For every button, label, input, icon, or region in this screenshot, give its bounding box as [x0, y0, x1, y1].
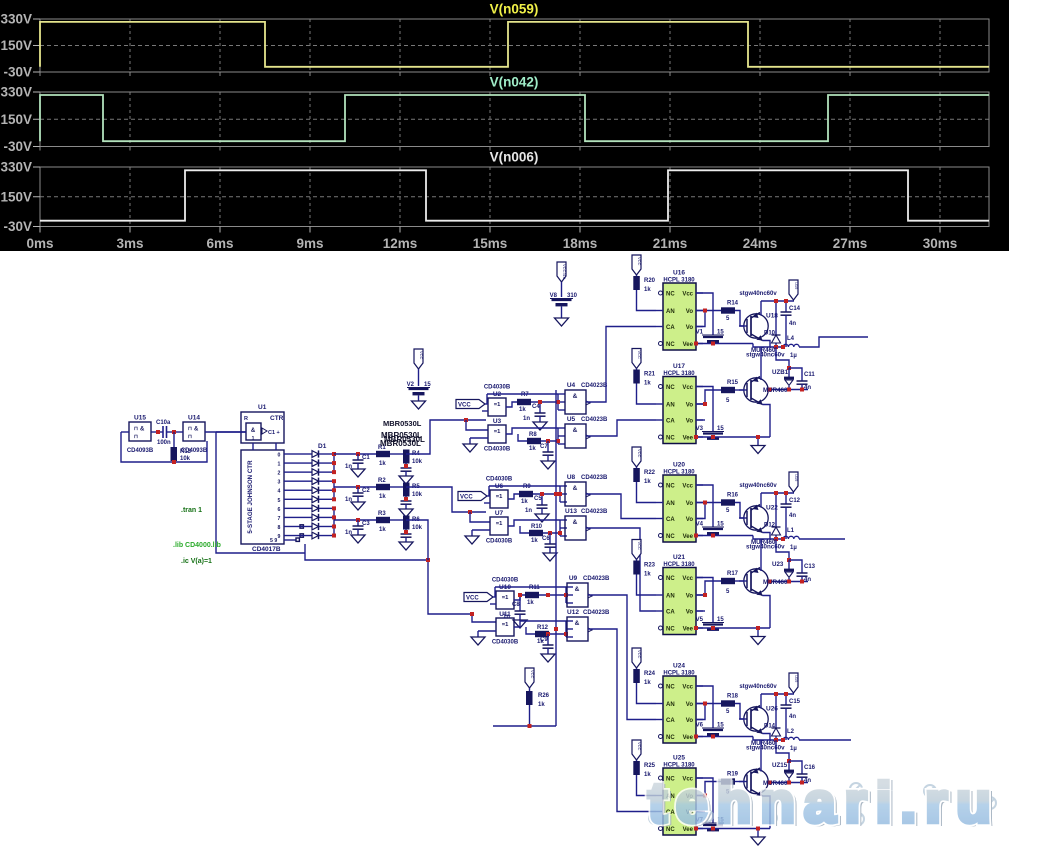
- svg-text:R3: R3: [378, 511, 386, 517]
- svg-text:CD4030B: CD4030B: [492, 640, 519, 646]
- svg-text:1k: 1k: [531, 538, 538, 544]
- svg-text:6ms: 6ms: [206, 236, 233, 251]
- svg-text:VCC: VCC: [637, 449, 642, 458]
- svg-text:Vo: Vo: [686, 325, 694, 331]
- svg-text:Vo: Vo: [686, 610, 694, 616]
- svg-text:U20: U20: [673, 462, 685, 469]
- svg-text:1n: 1n: [345, 530, 352, 536]
- svg-text:R26: R26: [538, 693, 550, 699]
- svg-text:R21: R21: [644, 372, 656, 378]
- svg-text:&: &: [573, 485, 578, 492]
- svg-text:C13: C13: [804, 564, 816, 570]
- svg-text:CD4023B: CD4023B: [581, 509, 608, 515]
- svg-text:L4: L4: [787, 336, 795, 342]
- svg-text:NC: NC: [666, 627, 675, 633]
- svg-text:9: 9: [278, 534, 281, 540]
- svg-text:4: 4: [278, 489, 281, 495]
- svg-text:C4: C4: [532, 404, 540, 410]
- svg-text:330V: 330V: [0, 160, 32, 175]
- svg-text:Vcc: Vcc: [682, 484, 693, 490]
- svg-text:=1: =1: [494, 402, 501, 408]
- svg-text:1µ: 1µ: [790, 545, 797, 551]
- svg-text:Vee: Vee: [683, 534, 694, 540]
- svg-text:=1: =1: [502, 595, 509, 601]
- svg-text:Vcc: Vcc: [682, 385, 693, 391]
- svg-text:NC: NC: [666, 292, 675, 298]
- svg-text:VCC: VCC: [458, 403, 471, 409]
- svg-text:1n: 1n: [523, 416, 530, 422]
- svg-text:150V: 150V: [0, 189, 32, 204]
- svg-text:0ms: 0ms: [26, 236, 53, 251]
- svg-text:Vo: Vo: [686, 309, 694, 315]
- svg-text:1n: 1n: [525, 508, 532, 514]
- svg-text:1k: 1k: [529, 446, 536, 452]
- svg-text:CD4030B: CD4030B: [484, 447, 511, 453]
- svg-text:AN: AN: [666, 702, 675, 708]
- svg-text:&: &: [573, 427, 578, 434]
- svg-text:R24: R24: [644, 671, 656, 677]
- svg-text:U9: U9: [569, 575, 578, 582]
- svg-text:MBR0530L: MBR0530L: [383, 419, 422, 428]
- svg-text:5: 5: [726, 398, 730, 404]
- svg-text:U16: U16: [673, 270, 685, 277]
- svg-text:CD4023B: CD4023B: [581, 383, 608, 389]
- svg-text:5: 5: [726, 508, 730, 514]
- svg-text:&: &: [573, 393, 578, 400]
- svg-text:4n: 4n: [789, 714, 796, 720]
- svg-text:330V: 330V: [0, 85, 32, 100]
- svg-text:Vee: Vee: [683, 342, 694, 348]
- svg-text:Vo: Vo: [686, 702, 694, 708]
- svg-text:⊓: ⊓: [188, 426, 192, 432]
- svg-text:1k: 1k: [379, 494, 386, 500]
- svg-text:R17: R17: [727, 571, 739, 577]
- svg-text:L2: L2: [787, 729, 795, 735]
- svg-text:=1: =1: [494, 429, 501, 435]
- svg-text:C15: C15: [789, 699, 801, 705]
- svg-text:R23: R23: [644, 563, 656, 569]
- svg-text:U7: U7: [495, 510, 504, 517]
- svg-text:27ms: 27ms: [833, 236, 868, 251]
- svg-text:C12: C12: [789, 498, 801, 504]
- svg-text:2: 2: [278, 471, 281, 477]
- svg-text:NC: NC: [666, 534, 675, 540]
- svg-text:12ms: 12ms: [383, 236, 418, 251]
- svg-text:Vcc: Vcc: [682, 685, 693, 691]
- svg-text:C10a: C10a: [156, 420, 171, 426]
- svg-text:1k: 1k: [644, 287, 651, 293]
- svg-text:150V: 150V: [0, 112, 32, 127]
- svg-text:HCPL 3180: HCPL 3180: [663, 763, 695, 769]
- svg-text:NC: NC: [666, 484, 675, 490]
- svg-text:5: 5: [726, 316, 730, 322]
- svg-text:CA: CA: [666, 325, 675, 331]
- svg-text:1k: 1k: [527, 600, 534, 606]
- svg-text:C6: C6: [542, 536, 550, 542]
- svg-text:HCPL 3180: HCPL 3180: [663, 278, 695, 284]
- svg-text:Vo: Vo: [686, 594, 694, 600]
- svg-text:8: 8: [278, 525, 281, 531]
- svg-text:VCC: VCC: [637, 257, 642, 266]
- svg-text:CD4093B: CD4093B: [127, 448, 154, 454]
- svg-text:C1: C1: [362, 455, 370, 461]
- svg-text:=1: =1: [502, 622, 509, 628]
- svg-text:1µ: 1µ: [790, 746, 797, 752]
- svg-text:1k: 1k: [644, 572, 651, 578]
- svg-text:=1: =1: [496, 521, 503, 527]
- svg-text:-30V: -30V: [3, 139, 32, 154]
- svg-text:VCC: VCC: [419, 351, 424, 360]
- svg-text:4n: 4n: [804, 385, 811, 391]
- svg-text:10k: 10k: [180, 456, 191, 462]
- svg-text:R20: R20: [644, 278, 656, 284]
- svg-text:U14: U14: [188, 415, 200, 422]
- svg-text:AN: AN: [666, 309, 675, 315]
- svg-text:V(n006): V(n006): [490, 150, 539, 165]
- svg-text:1k: 1k: [538, 702, 545, 708]
- svg-text:&: &: [140, 427, 145, 433]
- svg-text:150V: 150V: [0, 38, 32, 53]
- svg-text:1: 1: [278, 462, 281, 468]
- svg-text:7: 7: [278, 516, 281, 522]
- svg-text:R2: R2: [378, 478, 386, 484]
- svg-text:HCPL 3180: HCPL 3180: [663, 371, 695, 377]
- svg-text:U19: U19: [794, 282, 799, 290]
- svg-text:18ms: 18ms: [563, 236, 598, 251]
- svg-text:C11: C11: [804, 372, 815, 378]
- svg-text:CA: CA: [666, 419, 675, 425]
- svg-text:1µ: 1µ: [790, 353, 797, 359]
- svg-text:D1: D1: [318, 443, 327, 450]
- svg-text:L1: L1: [787, 528, 795, 534]
- svg-text:CD4023B: CD4023B: [583, 610, 610, 616]
- svg-text:CA: CA: [666, 718, 675, 724]
- svg-text:15ms: 15ms: [473, 236, 508, 251]
- svg-text:.ic V(a)=1: .ic V(a)=1: [181, 558, 212, 565]
- svg-text:U8: U8: [567, 474, 576, 481]
- svg-text:U13: U13: [565, 508, 577, 515]
- svg-text:4n: 4n: [804, 577, 811, 583]
- svg-text:Vee: Vee: [683, 735, 694, 741]
- svg-text:24ms: 24ms: [743, 236, 778, 251]
- svg-text:R: R: [244, 416, 248, 422]
- svg-text:R25: R25: [644, 763, 656, 769]
- svg-text:U24: U24: [673, 663, 685, 670]
- svg-text:1k: 1k: [519, 407, 526, 413]
- svg-text:5 9: 5 9: [270, 538, 277, 544]
- svg-text:3ms: 3ms: [116, 236, 143, 251]
- svg-text:C5: C5: [534, 496, 542, 502]
- svg-text:100n: 100n: [157, 440, 171, 446]
- svg-text:CD4023B: CD4023B: [581, 475, 608, 481]
- svg-text:U5: U5: [567, 416, 576, 423]
- svg-text:R16: R16: [727, 493, 739, 499]
- svg-text:5: 5: [726, 709, 730, 715]
- svg-text:5: 5: [278, 498, 281, 504]
- svg-text:4n: 4n: [789, 513, 796, 519]
- svg-text:1k: 1k: [644, 381, 651, 387]
- svg-text:⊓: ⊓: [134, 434, 138, 440]
- svg-text:C14: C14: [789, 306, 801, 312]
- svg-text:&: &: [251, 428, 256, 434]
- svg-text:1k: 1k: [644, 479, 651, 485]
- svg-text:VCC: VCC: [637, 650, 642, 659]
- svg-text:CA: CA: [666, 517, 675, 523]
- svg-text:U21: U21: [673, 554, 685, 561]
- svg-text:C3: C3: [362, 521, 370, 527]
- svg-text:R8: R8: [529, 432, 537, 438]
- svg-text:.tran 1: .tran 1: [181, 507, 202, 514]
- svg-text:NC: NC: [666, 342, 675, 348]
- svg-text:CD4023B: CD4023B: [583, 576, 610, 582]
- svg-text:stgw40nc60v: stgw40nc60v: [739, 483, 777, 489]
- svg-text:R9: R9: [523, 484, 531, 490]
- svg-text:HCPL 3180: HCPL 3180: [663, 671, 695, 677]
- svg-text:V(n059): V(n059): [490, 2, 539, 17]
- svg-text:R11: R11: [529, 585, 540, 591]
- svg-text:1k: 1k: [644, 680, 651, 686]
- svg-text:stgw40nc60v: stgw40nc60v: [739, 291, 777, 297]
- svg-text:HCPL 3180: HCPL 3180: [663, 562, 695, 568]
- svg-text:1n: 1n: [345, 464, 352, 470]
- svg-text:NC: NC: [666, 685, 675, 691]
- svg-text:21ms: 21ms: [653, 236, 688, 251]
- svg-text:VCC: VCC: [530, 670, 535, 679]
- svg-text:330V: 330V: [0, 12, 32, 27]
- svg-text:U19: U19: [794, 474, 799, 482]
- svg-text:1k: 1k: [521, 499, 528, 505]
- svg-text:U1: U1: [258, 404, 267, 411]
- svg-text:CD4030B: CD4030B: [492, 578, 519, 584]
- svg-text:=1: =1: [496, 494, 503, 500]
- svg-text:1n: 1n: [345, 497, 352, 503]
- svg-text:5-STAGE JOHNSON CTR: 5-STAGE JOHNSON CTR: [247, 460, 254, 534]
- svg-text:0: 0: [278, 453, 281, 459]
- svg-text:Vee: Vee: [683, 436, 694, 442]
- svg-text:NC: NC: [666, 735, 675, 741]
- svg-text:1n: 1n: [503, 614, 510, 620]
- svg-text:.lib CD4000.lib: .lib CD4000.lib: [173, 542, 221, 549]
- svg-text:R14: R14: [727, 301, 739, 307]
- svg-text:3: 3: [278, 480, 281, 486]
- svg-text:R10: R10: [531, 524, 543, 530]
- svg-text:CA: CA: [666, 610, 675, 616]
- svg-text:C7: C7: [540, 444, 548, 450]
- svg-text:C8: C8: [512, 602, 520, 608]
- svg-text:10k: 10k: [412, 492, 423, 498]
- svg-text:R13: R13: [180, 449, 192, 455]
- svg-text:UZ15: UZ15: [772, 762, 788, 769]
- svg-text:MUR460: MUR460: [763, 579, 788, 586]
- svg-text:9ms: 9ms: [296, 236, 323, 251]
- svg-text:U3: U3: [493, 418, 502, 425]
- svg-text:CD4017B: CD4017B: [252, 546, 281, 553]
- svg-text:U12: U12: [567, 609, 579, 616]
- svg-text:R15: R15: [727, 380, 739, 386]
- svg-text:VCC: VCC: [466, 596, 479, 602]
- svg-text:6: 6: [278, 507, 281, 513]
- svg-text:UZB1: UZB1: [772, 369, 789, 376]
- svg-text:1k: 1k: [379, 527, 386, 533]
- svg-text:CTR: CTR: [270, 415, 284, 422]
- svg-text:1: 1: [252, 436, 255, 442]
- svg-text:AN: AN: [666, 501, 675, 507]
- svg-text:Vo: Vo: [686, 501, 694, 507]
- svg-text:U17: U17: [673, 363, 685, 370]
- svg-text:4n: 4n: [789, 321, 796, 327]
- svg-text:CD4030B: CD4030B: [486, 477, 513, 483]
- svg-text:Vcc: Vcc: [682, 576, 693, 582]
- svg-text:VCC: VCC: [637, 742, 642, 751]
- svg-text:VCC310: VCC310: [562, 264, 567, 280]
- svg-text:MUR460: MUR460: [763, 387, 788, 394]
- svg-text:C2: C2: [362, 488, 370, 494]
- svg-text:CD4030B: CD4030B: [484, 385, 511, 391]
- svg-text:tehnari.ru: tehnari.ru: [648, 771, 990, 835]
- svg-text:NC: NC: [666, 436, 675, 442]
- svg-text:5: 5: [726, 589, 730, 595]
- svg-text:⊓: ⊓: [134, 426, 138, 432]
- svg-text:C9: C9: [540, 637, 548, 643]
- svg-text:stgw40nc60v: stgw40nc60v: [746, 544, 785, 551]
- svg-text:10k: 10k: [412, 459, 423, 465]
- svg-text:⊓: ⊓: [188, 434, 192, 440]
- svg-text:NC: NC: [666, 576, 675, 582]
- svg-text:MBR0530L: MBR0530L: [380, 439, 421, 448]
- svg-text:10k: 10k: [412, 525, 423, 531]
- svg-text:Vcc: Vcc: [682, 292, 693, 298]
- svg-text:NC: NC: [666, 385, 675, 391]
- svg-text:&: &: [575, 620, 580, 627]
- svg-text:U4: U4: [567, 382, 576, 389]
- svg-text:U25: U25: [673, 755, 685, 762]
- svg-text:Vee: Vee: [683, 627, 694, 633]
- svg-text:R7: R7: [521, 392, 529, 398]
- svg-text:&: &: [573, 519, 578, 526]
- svg-text:CD4023B: CD4023B: [581, 417, 608, 423]
- svg-text:VCC: VCC: [460, 495, 473, 501]
- svg-text:AN: AN: [666, 594, 675, 600]
- svg-text:R18: R18: [727, 694, 739, 700]
- svg-text:stgw40nc60v: stgw40nc60v: [746, 745, 785, 752]
- svg-text:30ms: 30ms: [923, 236, 958, 251]
- svg-text:HCPL 3180: HCPL 3180: [663, 470, 695, 476]
- svg-text:CD4030B: CD4030B: [486, 539, 513, 545]
- svg-text:1k: 1k: [379, 461, 386, 467]
- svg-text:Vo: Vo: [686, 403, 694, 409]
- svg-text:R12: R12: [537, 625, 549, 631]
- svg-text:Vo: Vo: [686, 517, 694, 523]
- svg-text:stgw40nc60v: stgw40nc60v: [746, 352, 785, 359]
- svg-text:VCC: VCC: [637, 351, 642, 360]
- svg-text:&: &: [575, 586, 580, 593]
- svg-text:AN: AN: [666, 403, 675, 409]
- svg-text:&: &: [194, 427, 199, 433]
- svg-text:Vo: Vo: [686, 419, 694, 425]
- svg-text:VCC: VCC: [637, 542, 642, 551]
- svg-text:stgw40nc60v: stgw40nc60v: [739, 684, 777, 690]
- svg-text:U15: U15: [134, 415, 146, 422]
- svg-text:U19: U19: [794, 675, 799, 683]
- svg-text:Vo: Vo: [686, 718, 694, 724]
- svg-text:R22: R22: [644, 470, 656, 476]
- svg-text:U23: U23: [772, 561, 784, 568]
- svg-text:-30V: -30V: [3, 219, 32, 234]
- svg-text:V(n042): V(n042): [490, 75, 539, 90]
- svg-text:-30V: -30V: [3, 65, 32, 80]
- svg-text:C1 +: C1 +: [268, 430, 280, 436]
